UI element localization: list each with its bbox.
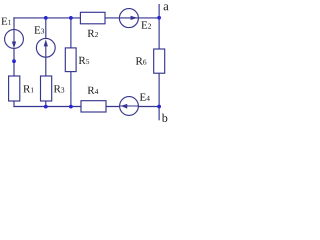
label E4 bbox=[140, 94, 150, 101]
junction dot top rail / E3 branch bbox=[44, 16, 48, 20]
junction dot bottom rail / right rail (node b) bbox=[157, 105, 161, 109]
wire left rail top segment (corner to E1) bbox=[13, 17, 15, 30]
wire right rail bottom segment (R6 down through dot to node b) bbox=[158, 73, 160, 121]
EMF source E3 circle bbox=[36, 38, 55, 57]
EMF source E2 circle bbox=[119, 9, 138, 28]
wire left rail middle segment (E1 bottom through dot to R1) bbox=[13, 48, 15, 77]
wire right rail top segment (node a down through dot to R6) bbox=[158, 4, 160, 50]
EMF source E1 circle bbox=[5, 30, 24, 49]
wire E3 branch middle (E3 bottom to R3) bbox=[45, 57, 47, 77]
resistor R3 bbox=[41, 76, 52, 101]
label R5 bbox=[79, 57, 89, 64]
junction dot top rail / right rail (node a) bbox=[157, 16, 161, 20]
EMF source E4 circle bbox=[120, 97, 139, 116]
wire R5 branch bottom (R5 to bottom rail) bbox=[70, 71, 72, 107]
resistor R1 bbox=[9, 76, 20, 101]
label R1 bbox=[23, 85, 33, 92]
E2 arrow (points right) bbox=[120, 17, 138, 19]
E3 arrow (points up) bbox=[45, 42, 47, 57]
resistor R2 bbox=[80, 12, 105, 23]
wire left rail bottom lead (R1 to bottom corner) bbox=[13, 101, 15, 108]
wire R5 branch top (top rail to R5) bbox=[70, 18, 72, 49]
label R2 bbox=[88, 30, 98, 37]
E1 arrow (points down) bbox=[13, 30, 15, 45]
resistor R6 bbox=[154, 49, 165, 73]
junction dot bottom rail / R5 branch bbox=[69, 105, 73, 109]
junction dot left rail bbox=[12, 59, 16, 63]
label E1 bbox=[1, 18, 11, 25]
E4 arrow (points left) bbox=[120, 105, 138, 107]
junction dot bottom rail / R3 branch bbox=[44, 105, 48, 109]
label E3 bbox=[34, 26, 44, 33]
label R3 bbox=[54, 85, 64, 92]
wire bottom rail from left corner to right rail bbox=[13, 106, 159, 108]
label R6 bbox=[136, 57, 147, 64]
node b bbox=[162, 114, 168, 122]
junction dot top rail / R5 branch bbox=[69, 16, 73, 20]
resistor R5 bbox=[65, 48, 76, 72]
wire E3 branch bottom lead (R3 to bottom rail) bbox=[45, 101, 47, 108]
wire E3 branch top (top rail to E3) bbox=[45, 18, 47, 40]
label R4 bbox=[88, 87, 99, 94]
wire top rail from node a corner to right rail bbox=[13, 17, 159, 19]
node a bbox=[164, 4, 169, 10]
label E2 bbox=[141, 21, 151, 28]
resistor R4 bbox=[81, 101, 106, 112]
